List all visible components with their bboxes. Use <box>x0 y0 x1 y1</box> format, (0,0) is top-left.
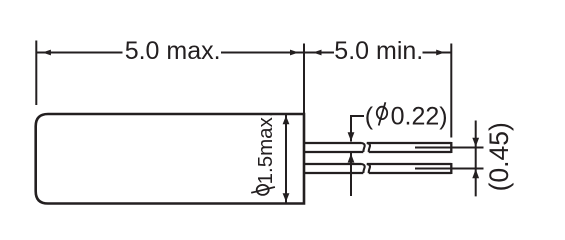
top lead break curve left <box>362 143 365 152</box>
arrowhead (0.45) down <box>472 138 479 147</box>
bottom lead upper edge left part <box>305 163 362 165</box>
svg-text:5.0 min.: 5.0 min. <box>334 37 423 65</box>
arrowhead phi1.5 top <box>283 116 290 125</box>
top lead break curve right <box>367 143 370 152</box>
top lead upper edge left part <box>305 142 362 144</box>
dimension line phi 1.5 max (vertical inside body) <box>285 115 287 203</box>
dimension line 5.0 max. right segment <box>221 52 304 54</box>
svg-text:0.22): 0.22) <box>391 102 448 130</box>
bottom lead centerline / extension <box>415 168 484 170</box>
bottom lead lower edge right part <box>369 172 452 174</box>
dimension line 5.0 min. right segment <box>423 52 452 54</box>
bottom lead break curve left <box>362 164 365 173</box>
top lead end cap <box>450 142 452 153</box>
svg-text:(: ( <box>365 102 374 130</box>
bottom lead break curve right <box>367 164 370 173</box>
arrowhead 5.0 min. right <box>436 50 445 56</box>
bottom lead lower edge left part <box>305 172 363 174</box>
crystal body outline <box>36 114 304 204</box>
arrowhead phi1.5 bottom <box>283 193 290 202</box>
arrowhead phi 0.22 down (to lead top edge) <box>348 132 355 141</box>
arrowhead 5.0 min. left <box>313 50 322 56</box>
dimension line 5.0 min. left segment <box>305 52 334 54</box>
leader phi 0.22 lower shaft <box>350 153 352 196</box>
bottom lead end cap <box>450 163 452 174</box>
extension line right (lead end) <box>450 44 452 138</box>
top lead upper edge right part <box>367 142 452 144</box>
top lead centerline / extension <box>415 147 484 149</box>
extension line middle (body right edge) <box>303 44 305 115</box>
svg-text:5.0 max.: 5.0 max. <box>125 37 221 65</box>
svg-text:(0.45): (0.45) <box>484 122 514 191</box>
top lead lower edge right part <box>369 151 452 153</box>
leader phi 0.22 vertical segment <box>350 115 352 142</box>
leader phi 0.22 horizontal segment <box>350 115 364 117</box>
extension line left (body left edge) <box>35 41 37 106</box>
top lead lower edge left part <box>305 151 363 153</box>
arrowhead (0.45) up <box>472 169 479 178</box>
arrowhead 5.0 max. left <box>42 50 51 56</box>
dimension line 5.0 max. left segment <box>36 52 122 54</box>
svg-text:1.5max.: 1.5max. <box>254 111 277 184</box>
arrowhead phi 0.22 up (to lead bottom edge) <box>348 154 355 163</box>
bottom lead upper edge right part <box>367 163 452 165</box>
dimension line (0.45) vertical <box>475 121 477 197</box>
label phi 1.5 max. (rotated, custom phi glyph) <box>251 111 277 194</box>
arrowhead 5.0 max. right <box>290 50 299 56</box>
